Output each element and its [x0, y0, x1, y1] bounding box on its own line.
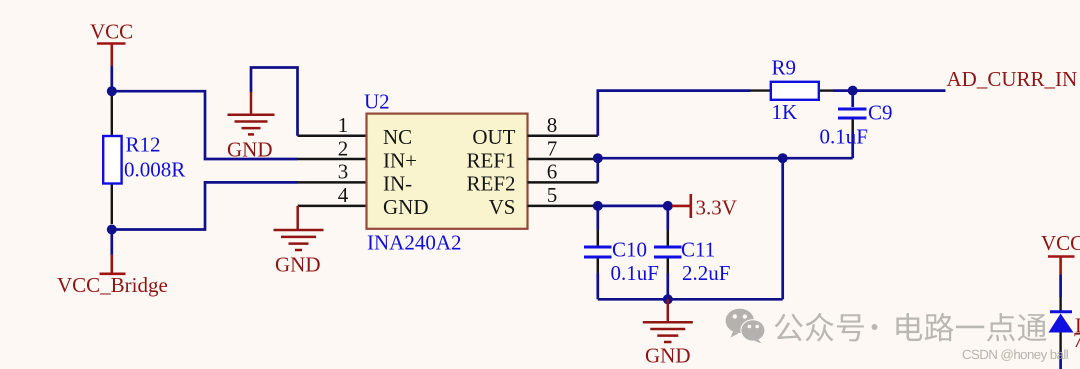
- node junction C11 top: [663, 201, 673, 211]
- capacitor C9 top pin: [851, 91, 854, 107]
- svg-text:VCC: VCC: [90, 20, 133, 44]
- svg-text:3.3V: 3.3V: [696, 196, 737, 220]
- svg-text:CSDN @honey ball: CSDN @honey ball: [962, 347, 1069, 362]
- svg-text:GND: GND: [645, 344, 691, 368]
- wire bottom rail: [598, 298, 783, 301]
- diode D cathode bar: [1050, 310, 1072, 313]
- svg-text:1: 1: [338, 113, 349, 137]
- node junction VCC/R12: [107, 86, 117, 96]
- diode D body triangle: [1049, 314, 1074, 333]
- pin 7 REF1: [528, 158, 598, 161]
- resistor R12 pins: [111, 96, 113, 224]
- svg-text:2.2uF: 2.2uF: [682, 261, 730, 285]
- svg-text:1K: 1K: [772, 100, 798, 124]
- power port VCC (bottom right): [1048, 257, 1075, 275]
- node junction R12/VCC_Bridge: [107, 225, 117, 235]
- svg-text:R9: R9: [772, 56, 797, 80]
- ground symbol (pin1): [228, 92, 275, 134]
- svg-text:5: 5: [547, 183, 558, 207]
- svg-text:0.008R: 0.008R: [124, 158, 185, 182]
- capacitor C10 plates: [584, 247, 612, 257]
- svg-text:C10: C10: [612, 238, 647, 262]
- svg-text:0.1uF: 0.1uF: [820, 125, 868, 149]
- svg-text:INA240A2: INA240A2: [367, 231, 462, 255]
- power port 3.3V: [672, 194, 691, 218]
- svg-text:VS: VS: [489, 195, 516, 219]
- svg-text:AD_CURR_IN: AD_CURR_IN: [947, 67, 1078, 91]
- wire pin8 up and right to R9: [598, 91, 751, 136]
- svg-text:8: 8: [547, 113, 558, 137]
- svg-text:REF1: REF1: [466, 148, 515, 172]
- pin 6 REF2: [528, 181, 598, 184]
- wire REF branch down: [781, 158, 784, 299]
- svg-text:7: 7: [547, 136, 558, 160]
- capacitor C11 bottom pin: [667, 259, 670, 300]
- svg-text:3: 3: [338, 160, 349, 184]
- node junction pin7: [593, 153, 603, 163]
- wire tie pin7 to pin6: [596, 158, 599, 182]
- wire VCC to diode: [1059, 275, 1062, 298]
- svg-text:R12: R12: [126, 133, 161, 157]
- svg-text:GND: GND: [275, 253, 321, 277]
- capacitor C11 top pin: [666, 206, 669, 246]
- wire VS to 3.3V: [598, 205, 668, 208]
- svg-text:IN-: IN-: [383, 172, 412, 196]
- pin 1 NC: [298, 135, 367, 138]
- wire junction down to VCC_Bridge: [110, 230, 113, 255]
- wire diode down: [1059, 351, 1062, 369]
- wire junction to pin3 IN-: [112, 182, 298, 229]
- svg-text:2: 2: [338, 136, 349, 160]
- ground symbol (pin4): [274, 206, 324, 250]
- svg-text:REF2: REF2: [466, 172, 515, 196]
- capacitor C10 top pin: [596, 206, 599, 246]
- pin 8 OUT: [528, 135, 598, 138]
- node junction R9/C9: [848, 86, 858, 96]
- resistor R12 body: [103, 136, 121, 184]
- capacitor C10 bottom pin: [597, 259, 600, 300]
- svg-text:0.1uF: 0.1uF: [611, 261, 659, 285]
- svg-text:4: 4: [338, 183, 349, 207]
- resistor R9 body: [771, 82, 819, 100]
- op-amp U2 INA240A2 body: [367, 114, 528, 229]
- svg-text:C9: C9: [868, 101, 893, 125]
- node junction bottom rail: [663, 294, 673, 304]
- pin 2 IN+: [298, 158, 367, 161]
- wire VCC to R12 junction: [110, 66, 113, 91]
- wire junction to AD_CURR_IN: [853, 89, 946, 92]
- svg-text:7: 7: [1073, 328, 1080, 352]
- svg-text:U2: U2: [364, 90, 390, 114]
- watermark wechat logo: [726, 309, 766, 344]
- wire REF net pin7 to C9: [598, 157, 853, 160]
- svg-text:OUT: OUT: [472, 125, 515, 149]
- power port VCC (top left): [97, 44, 126, 67]
- pin 5 VS: [528, 205, 598, 208]
- node junction REF branch: [778, 153, 788, 163]
- svg-text:GND: GND: [227, 138, 273, 162]
- capacitor C9 bottom pin: [851, 120, 854, 159]
- ground symbol (bottom): [643, 299, 693, 342]
- svg-text:VCC: VCC: [1041, 231, 1080, 255]
- node junction pin5 VS: [593, 201, 603, 211]
- capacitor C11 plates: [654, 247, 682, 257]
- power port VCC_Bridge: [100, 255, 126, 274]
- wire junction to pin2 IN+: [112, 91, 298, 159]
- svg-text:IN+: IN+: [383, 148, 417, 172]
- svg-text:GND: GND: [383, 195, 429, 219]
- resistor R9 pins: [751, 89, 834, 91]
- svg-text:C11: C11: [681, 238, 715, 262]
- wire R9 to junction: [833, 89, 853, 92]
- svg-text:6: 6: [547, 160, 558, 184]
- capacitor C9 plates: [838, 109, 867, 118]
- svg-text:VCC_Bridge: VCC_Bridge: [57, 273, 168, 297]
- watermark text: [775, 313, 1047, 342]
- pin 3 IN-: [298, 181, 367, 184]
- diode D pins: [1059, 297, 1061, 351]
- pin 4 GND: [298, 205, 367, 208]
- svg-text:NC: NC: [383, 125, 412, 149]
- wire pin1 NC to ground: [251, 68, 298, 136]
